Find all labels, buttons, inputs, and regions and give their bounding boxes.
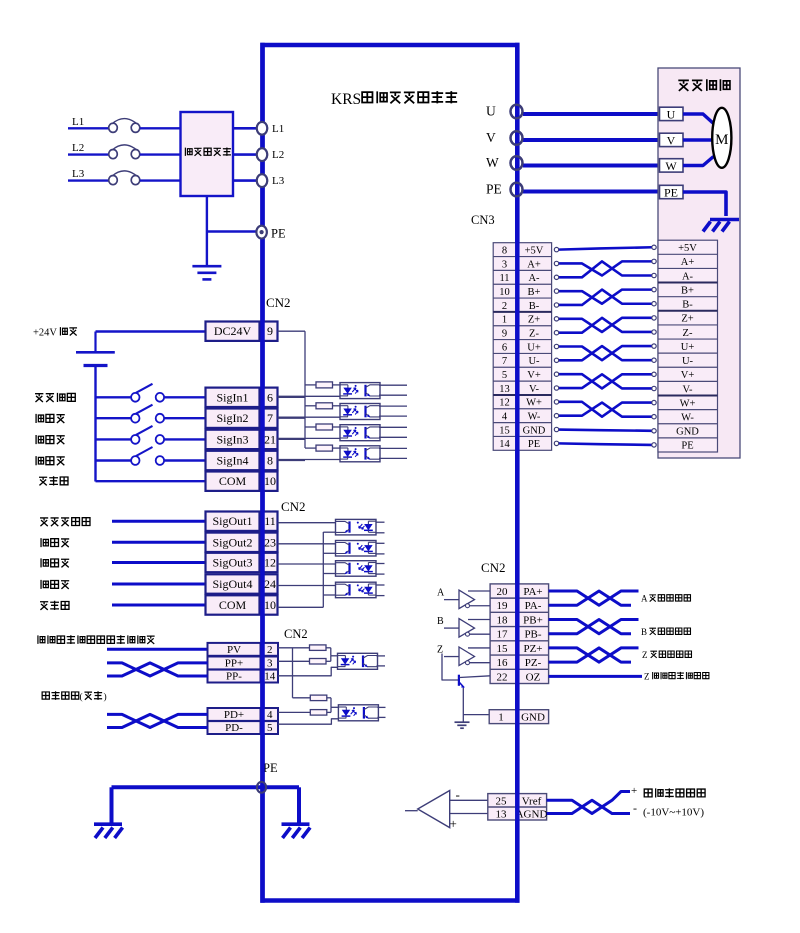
wire PD- to opto U10 [278,719,338,724]
motor terminal W [660,159,684,172]
pin box 8 (SigIn4) [263,451,278,470]
svg-text:PP+: PP+ [225,657,243,669]
terminal U ring [511,105,523,119]
switch S2 [131,414,139,423]
svg-text:SigOut4: SigOut4 [212,577,252,591]
wire A input [444,599,459,601]
svg-text:PE: PE [528,439,540,450]
wire OZ output [549,675,642,678]
wire CN3 PE [558,443,652,445]
pin box 5 (PD-) [262,721,279,734]
wire SigIn1 to optocoupler U1 [278,395,341,397]
svg-text:W-: W- [681,413,694,424]
svg-text:CN2: CN2 [284,627,308,641]
wire SigOut3 to optocoupler U7 [278,563,336,565]
wire optocoupler U5 bottom to common bus [323,531,335,533]
svg-text:SigIn4: SigIn4 [216,454,248,468]
svg-text:KRS: KRS [331,91,361,108]
terminal box PP- [208,670,261,683]
pin box 14 (PP-) [262,670,279,683]
svg-text:W: W [486,155,499,170]
terminal W ring [511,156,523,170]
svg-text:8: 8 [502,245,507,256]
power filter box [181,112,234,196]
svg-text:10: 10 [499,287,510,298]
label SigIn2 function [36,414,65,423]
pin box 24 (SigOut4) [263,574,278,593]
svg-text:21: 21 [264,432,276,446]
svg-text:2: 2 [502,301,507,312]
label COM function [40,601,69,610]
svg-text:COM: COM [219,598,247,612]
svg-text:A: A [641,594,648,604]
pin box 7 (SigIn2) [263,409,278,428]
twisted pair CN3 B+/B- [558,290,652,304]
svg-text:PA-: PA- [525,600,542,612]
svg-text:13: 13 [499,384,510,395]
label power-filter (dian yuan lv bo qi) [185,147,231,155]
svg-text:Z: Z [644,672,650,682]
twisted pair PB output [549,619,639,633]
svg-text:PE: PE [681,441,693,452]
svg-text:12: 12 [264,556,276,570]
switch S4 [131,456,139,465]
svg-text:15: 15 [497,643,509,655]
svg-text:PZ+: PZ+ [523,643,542,655]
servo motor box [658,68,740,458]
motor encoder terminal table [658,240,718,452]
svg-text:B-: B- [682,300,693,311]
svg-text:+: + [631,785,637,797]
wire op-amp inputs [450,799,488,801]
svg-text:V: V [667,133,676,147]
wire switch to SigIn4 [165,459,206,461]
svg-text:CN3: CN3 [471,213,495,227]
svg-text:14: 14 [264,671,276,683]
terminal box COM [206,595,260,614]
twisted pair PP+/PP- [107,663,208,676]
wire pin 9 stub [278,330,306,332]
CN3 terminal table (drive side) [493,243,551,451]
label SigOut3 function [41,558,69,567]
svg-text:+: + [450,816,457,831]
wire driver A outputs [468,590,490,592]
wire SigOut4 to optocoupler U8 [278,585,336,587]
wire SigOut2 to optocoupler U6 [278,543,336,545]
wire label to SigOut3 [112,561,206,564]
wire pin 8 stub [278,460,306,462]
terminal box SigOut2 [206,533,260,552]
svg-text:9: 9 [502,328,507,339]
wire CN3 +5V [558,247,652,249]
twisted pair CN3 W+/W- [558,402,652,417]
wire optocoupler U8 bottom to common bus [323,594,335,596]
svg-text:CN2: CN2 [266,295,291,310]
wire fuse to filter L1 [140,127,181,129]
svg-text:OZ: OZ [526,671,541,683]
wire R5 to opto U9 [330,648,332,656]
svg-text:PV: PV [227,644,241,656]
twisted pair CN3 A+/A- [558,261,652,275]
twisted pair speed command [547,792,630,814]
resistor R6 (PP+) [278,660,310,662]
wire op-amp output [405,810,418,812]
terminal box SigIn3 [206,430,260,449]
svg-text:18: 18 [497,614,509,626]
twisted pair CN3 V+/V- [558,374,652,388]
svg-text:3: 3 [502,259,507,270]
optocoupler U7 (output) [336,561,377,577]
twisted pair PZ output [549,648,639,662]
wire W to motor [523,164,660,168]
chassis ground (PE right) [282,822,310,826]
terminal box DC24V [206,322,260,341]
terminal box SigOut3 [206,553,260,572]
svg-text:5: 5 [502,370,507,381]
wire PP- to opto U9 [278,667,338,676]
wire output common bus [322,532,324,607]
wire V to motor winding [683,138,713,141]
terminal PE ring [511,183,523,197]
wire filter to terminal L1 [233,127,257,130]
Vref/AGND table [488,794,547,820]
svg-text:17: 17 [497,629,509,641]
wire optocoupler U7 bottom to common bus [323,573,335,575]
svg-text:U-: U- [528,356,540,367]
svg-text:PB+: PB+ [523,614,543,626]
earth ground (pulse output) [455,721,470,723]
wire U to motor winding [683,114,714,124]
svg-text:10: 10 [264,598,276,612]
wire +24V to DC24V [96,330,206,332]
svg-text:Z-: Z- [529,328,539,339]
wire pin 6 stub [278,396,306,398]
wire optocoupler U7 outputs [376,563,385,565]
svg-text:A+: A+ [527,259,541,270]
wire GND box to ground node [463,714,489,716]
svg-text:U+: U+ [527,342,541,353]
motor M [712,108,731,168]
pin box 2 (PV) [262,643,279,656]
svg-text:19: 19 [497,600,509,612]
svg-text:PE: PE [486,182,502,197]
wire filter to terminal L2 [233,153,257,156]
svg-text:1: 1 [498,712,504,724]
svg-text:+5V: +5V [678,243,697,254]
pin box 3 (PP+) [262,657,279,670]
label SigIn4 function [36,456,65,465]
wire L3 to fuse [68,179,109,181]
svg-text:SigIn1: SigIn1 [216,390,248,404]
svg-text:): ) [104,692,107,703]
svg-text:20: 20 [497,586,509,598]
svg-text:SigIn2: SigIn2 [216,411,248,425]
label open-collector pulse input power [38,635,155,644]
drive unit box (KRS AC servo driver) [263,45,518,901]
svg-text:L3: L3 [72,168,85,180]
terminal L3 on drive [257,174,267,187]
svg-text:A+: A+ [681,257,695,268]
svg-text:A-: A- [528,273,540,284]
svg-text:GND: GND [523,425,546,436]
optocoupler U10 (PD pulse) [338,705,378,721]
wire switch to SigIn1 [165,396,206,398]
twisted pair CN3 U+/U- [558,346,652,360]
label COM common (gong gong duan) [39,476,68,485]
label SigIn3 function [36,435,65,444]
svg-text:12: 12 [499,398,510,409]
svg-text:Z+: Z+ [528,315,540,326]
svg-text:U: U [486,104,496,119]
svg-text:Z+: Z+ [681,314,693,325]
svg-text:PB-: PB- [524,629,541,641]
resistor R5 (PV-PP) [310,645,327,651]
resistor R2 (input SigIn2) [305,405,316,407]
svg-text:15: 15 [499,425,510,436]
fuse F3 [109,176,118,185]
svg-text:+5V: +5V [525,245,544,256]
terminal box PD+ [208,708,261,721]
svg-text:7: 7 [267,411,273,425]
terminal PE on drive (input side) [256,226,266,239]
svg-text:CN2: CN2 [281,499,306,514]
twisted pair CN3 Z+/Z- [558,318,652,332]
svg-text:(-10V~+10V): (-10V~+10V) [643,807,704,819]
label SigOut1 function [40,518,90,526]
wire optocoupler U9 outputs [377,655,386,657]
fuse F1 [109,123,118,132]
optocoupler U8 (output) [336,582,377,598]
pin box 6 (SigIn1) [263,388,278,407]
svg-text:-: - [633,801,637,815]
svg-text:B+: B+ [681,285,694,296]
svg-text:W-: W- [528,412,541,423]
label SigOut2 function [41,538,69,547]
svg-text:PD+: PD+ [224,709,244,721]
terminal rings overlay (L1 L2 L3) [257,122,267,135]
terminal L1 on drive [257,122,267,135]
terminal box SigOut4 [206,574,260,593]
svg-text:24: 24 [264,577,276,591]
svg-text:PE: PE [263,761,278,775]
svg-text:L1: L1 [72,116,84,128]
wire PV supply [107,648,208,651]
terminal box PP+ [208,657,261,670]
svg-text:L2: L2 [272,149,284,161]
svg-text:2: 2 [267,644,273,656]
svg-text:PA+: PA+ [523,586,542,598]
svg-text:7: 7 [502,356,507,367]
line driver Z [459,647,475,666]
optocoupler U4 (input) [340,446,380,462]
svg-text:10: 10 [264,474,276,488]
terminal PE ring overlay (input) [256,226,266,239]
svg-text:M: M [715,132,728,148]
optocoupler U5 (output) [336,519,377,535]
wire driver B outputs [468,618,490,620]
wire Z input [444,656,459,658]
pin box 10 (COM) [263,472,278,491]
svg-text:PE: PE [271,227,286,241]
svg-text:L1: L1 [272,123,284,135]
svg-text:6: 6 [502,342,507,353]
wire switch to SigIn3 [165,438,206,440]
earth ground (filter) [192,265,221,268]
label speed analog command [644,788,705,797]
wire fuse to filter L3 [140,179,181,181]
wire bus to switch S4 [96,459,132,461]
terminal box SigIn4 [206,451,260,470]
svg-text:GND: GND [521,712,545,724]
svg-text:PE: PE [664,185,678,199]
wire switch to SigIn2 [165,417,206,419]
wire fuse to filter L2 [140,153,181,155]
resistor R3 (input SigIn3) [305,426,316,428]
pin box 4 (PD+) [262,708,279,721]
motor terminal PE [660,185,684,198]
svg-text:A-: A- [682,271,694,282]
wire optocoupler U10 outputs [377,706,385,708]
svg-text:W: W [665,159,677,173]
wire bus to switch S1 [96,396,132,398]
svg-text:8: 8 [267,454,273,468]
svg-text:L2: L2 [72,142,84,154]
terminal L2 on drive [257,148,267,161]
wire PE to motor [523,190,660,194]
svg-text:SigOut1: SigOut1 [212,514,252,528]
svg-text:PD-: PD- [225,722,243,734]
svg-text:B: B [641,627,647,637]
svg-text:V: V [486,130,496,145]
optocoupler U9 (PP pulse) [338,653,378,669]
wire driver Z outputs [468,647,490,649]
svg-text:Z: Z [642,650,648,660]
svg-text:V-: V- [529,384,540,395]
label SigIn1 function [35,393,75,402]
svg-text:U-: U- [682,356,694,367]
svg-text:PZ-: PZ- [525,657,542,669]
svg-text:6: 6 [267,390,273,404]
pin box 9 (DC24V) [263,322,278,341]
svg-text:L3: L3 [272,175,285,187]
svg-text:SigIn3: SigIn3 [216,432,248,446]
svg-text:1: 1 [502,315,507,326]
wire filter to earth [206,196,208,265]
transistor Q1 (OZ) [458,675,460,686]
svg-text:4: 4 [502,412,508,423]
resistor R1 (input SigIn1) [305,384,316,386]
wire CN3 GND [558,430,652,431]
wire label to SigOut4 [112,583,206,586]
GND table (pin 1) [489,710,548,724]
svg-text:Z-: Z- [683,328,693,339]
svg-text:U: U [667,107,676,121]
twisted pair PD+/PD- [107,714,208,727]
wire optocoupler U5 outputs [376,521,385,523]
svg-text:PP-: PP- [226,671,242,683]
svg-text:16: 16 [497,657,509,669]
wire motor PE to ground [683,192,726,216]
svg-text:11: 11 [264,514,276,528]
wire Z to transistor base [442,654,458,681]
svg-text:V+: V+ [527,370,541,381]
wire W to motor winding [683,157,714,166]
svg-text:23: 23 [264,535,276,549]
optocoupler U2 (input) [340,404,380,420]
optocoupler U6 (output) [336,541,377,557]
svg-text:25: 25 [496,796,508,808]
wire optocoupler U2 outputs [379,405,407,407]
twisted pair PA output [549,591,639,605]
wire SigIn4 to optocoupler U4 [278,459,341,461]
pin box 12 (SigOut3) [263,553,278,572]
wire bus to COM [96,480,206,482]
wire optocoupler U6 bottom to common bus [323,552,335,554]
svg-text:13: 13 [496,809,508,821]
wire pin 7 stub [278,417,306,419]
wire +24V feed to input optocouplers [304,331,306,448]
wire pin2 to resistor bus [278,647,310,649]
svg-text:W+: W+ [680,398,696,409]
svg-text:W+: W+ [526,398,542,409]
label input pulse (differential) [42,691,79,700]
optocoupler U3 (input) [340,425,380,441]
wire label to SigOut2 [112,541,206,544]
pin box 23 (SigOut2) [263,533,278,552]
fuse F2 [109,150,118,159]
terminal box SigIn2 [206,409,260,428]
svg-text:11: 11 [499,273,509,284]
wire optocoupler U6 outputs [376,542,385,544]
svg-text:A: A [437,588,445,599]
svg-text:SigOut3: SigOut3 [212,556,252,570]
wire optocoupler U4 outputs [379,447,407,449]
svg-text:(: ( [80,692,83,703]
wire bus to switch S2 [96,417,132,419]
svg-text:+24V: +24V [33,328,57,339]
wire V to motor [523,138,660,142]
svg-text:V+: V+ [681,370,695,381]
terminal PE ring overlay (bottom) [257,782,266,793]
wire U to motor [523,112,660,116]
svg-text:9: 9 [267,324,273,338]
wire pin 21 stub [278,438,306,440]
wire SigIn3 to optocoupler U3 [278,437,341,439]
svg-text:COM: COM [219,474,247,488]
optocoupler U1 (input) [340,383,380,399]
resistor R7 (PV-PD) [310,695,327,701]
wire B input [444,627,459,629]
terminal box SigOut1 [206,512,260,531]
resistor R8 (PD+) [278,711,310,713]
svg-text:AGND: AGND [516,809,548,821]
wire label to SigOut1 [112,520,206,523]
wire common bus (24V-) [94,366,96,482]
battery B1 (24V) [94,332,96,352]
wire PE bottom bus [112,785,300,789]
wire resistor feed bus (PV) [292,648,294,698]
wire optocoupler U3 outputs [379,426,407,428]
svg-text:GND: GND [676,427,699,438]
wire L2 to fuse [68,153,109,155]
svg-text:B: B [437,616,444,627]
wire label to COM [112,604,206,607]
switch S3 [131,435,139,444]
wire bus to switch S3 [96,438,132,440]
motor terminal V [660,133,684,146]
svg-text:3: 3 [267,657,273,669]
svg-text:CN2: CN2 [481,560,506,575]
